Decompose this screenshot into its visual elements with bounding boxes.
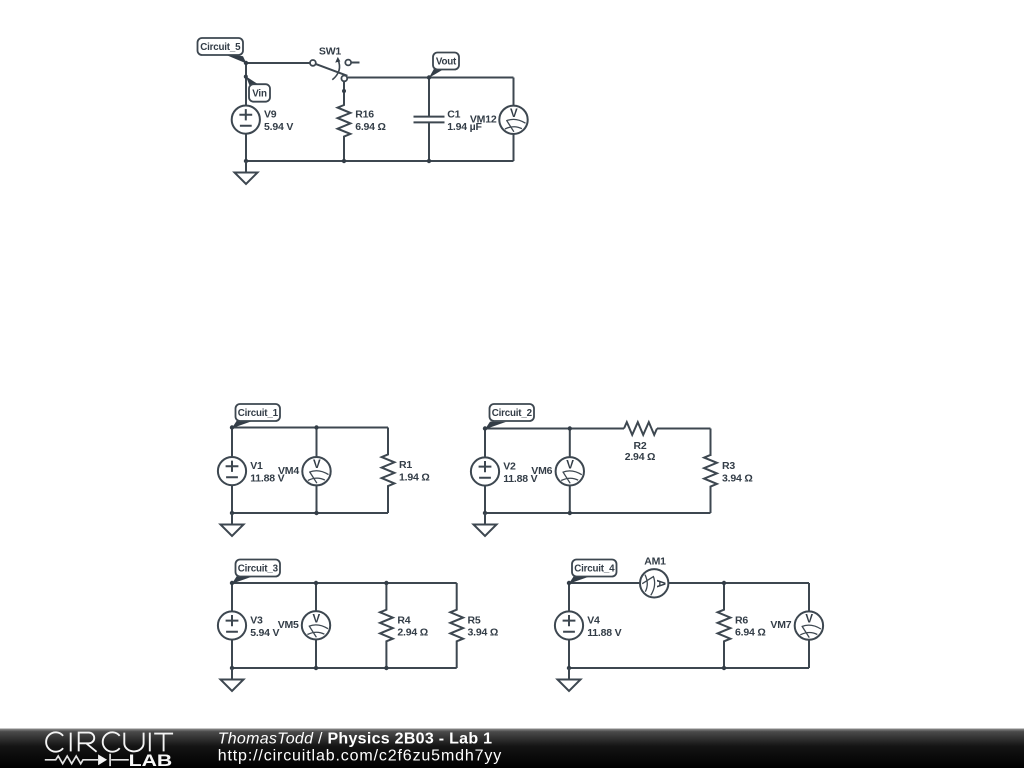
junction V9 bottom rail bbox=[244, 159, 248, 163]
junction node top-left Circuit_1 bbox=[230, 425, 234, 429]
svg-text:A: A bbox=[654, 579, 666, 587]
svg-text:VM6: VM6 bbox=[531, 465, 552, 477]
svg-text:SW1: SW1 bbox=[319, 45, 342, 57]
junction Vout node bbox=[427, 75, 431, 79]
wire: V4 bottom lead bbox=[568, 640, 570, 668]
voltage source V2 bbox=[471, 457, 499, 485]
callout flag Circuit_4 bbox=[569, 560, 617, 584]
CircuitLab logo resistor-diode wire bbox=[45, 754, 129, 766]
wire: VM7 bottom lead bbox=[808, 640, 810, 668]
resistor R4 bbox=[380, 583, 393, 668]
callout flag Vin bbox=[246, 76, 270, 101]
junction node top-left Circuit_3 bbox=[230, 581, 234, 585]
svg-text:Vin: Vin bbox=[252, 89, 267, 100]
wire: node Vin-top to SW1 left terminal bbox=[246, 62, 310, 64]
wire: bottom rail of Circuit_4 bbox=[569, 667, 809, 669]
wire: V1 top lead bbox=[231, 428, 233, 458]
voltage source V9 bbox=[232, 106, 260, 134]
junction VM6 top bbox=[568, 426, 572, 430]
callout flag Circuit_5 bbox=[198, 38, 247, 64]
wire: SW1 common down to R16 bbox=[343, 81, 345, 104]
junction Vin node bbox=[244, 75, 248, 79]
voltmeter VM7 bbox=[795, 611, 823, 639]
junction VM5 top bbox=[314, 581, 318, 585]
resistor R16 bbox=[338, 81, 351, 162]
voltage source V4 bbox=[555, 611, 583, 639]
svg-text:VM5: VM5 bbox=[278, 619, 299, 631]
voltage source V3 bbox=[218, 611, 246, 639]
svg-text:R1: R1 bbox=[399, 459, 412, 471]
svg-text:5.94 V: 5.94 V bbox=[264, 121, 293, 133]
svg-text:2.94 Ω: 2.94 Ω bbox=[625, 451, 656, 463]
wire: V4 top lead bbox=[568, 583, 570, 612]
voltage source V1 bbox=[218, 457, 246, 485]
resistor R6 bbox=[718, 583, 731, 668]
wire: top rail of Circuit_1 bbox=[232, 427, 388, 429]
svg-text:3.94 Ω: 3.94 Ω bbox=[468, 627, 499, 639]
wire: VM5 bottom lead bbox=[315, 640, 317, 668]
svg-text:2.94 Ω: 2.94 Ω bbox=[397, 627, 428, 639]
svg-text:VM7: VM7 bbox=[770, 619, 791, 631]
svg-text:http://circuitlab.com/c2f6zu5m: http://circuitlab.com/c2f6zu5mdh7yy bbox=[218, 747, 502, 764]
wire: VM6 bottom lead bbox=[569, 486, 571, 514]
svg-text:Circuit_2: Circuit_2 bbox=[492, 408, 533, 419]
resistor R2 (horizontal) bbox=[624, 422, 657, 435]
wire: V9 top lead from node to source bbox=[245, 63, 247, 106]
ground Circuit_1 bbox=[221, 513, 244, 536]
wire: bottom rail of Circuit_2 bbox=[485, 512, 711, 514]
resistor R3 bbox=[704, 429, 717, 514]
junction VM4 bottom bbox=[314, 511, 318, 515]
wire: V2 top lead bbox=[484, 429, 486, 458]
svg-text:Circuit_5: Circuit_5 bbox=[200, 42, 241, 53]
ground Circuit_3 bbox=[221, 668, 244, 691]
wire: AM1 to VM7 corner bbox=[668, 582, 809, 584]
junction SW1 to R16 bbox=[342, 89, 346, 93]
wire: bottom rail of Circuit_5 bbox=[246, 160, 514, 162]
svg-text:R5: R5 bbox=[468, 614, 481, 626]
ground Circuit_4 bbox=[558, 668, 581, 691]
wire: VM12 bottom lead bbox=[513, 134, 515, 161]
callout flag Circuit_2 bbox=[485, 404, 534, 429]
svg-text:ThomasTodd / Physics 2B03 - La: ThomasTodd / Physics 2B03 - Lab 1 bbox=[218, 731, 493, 748]
svg-text:VM12: VM12 bbox=[470, 113, 497, 125]
svg-text:V: V bbox=[313, 459, 321, 471]
capacitor C1 bbox=[414, 78, 445, 162]
junction VM4 top bbox=[314, 425, 318, 429]
junction C1 bottom rail bbox=[427, 159, 431, 163]
callout flag Circuit_3 bbox=[232, 560, 280, 584]
voltmeter VM5 bbox=[302, 611, 330, 639]
wire: V9 bottom lead bbox=[245, 134, 247, 161]
wire: V1 bottom lead bbox=[231, 485, 233, 513]
wire: VM7 top lead bbox=[808, 583, 810, 612]
svg-text:Circuit_4: Circuit_4 bbox=[574, 564, 615, 575]
wire: R3 right riser bbox=[710, 429, 712, 457]
svg-text:1.94 Ω: 1.94 Ω bbox=[399, 471, 430, 483]
wire: VM4 top lead bbox=[316, 428, 318, 458]
svg-text:V: V bbox=[312, 613, 320, 625]
footer black bar bbox=[0, 729, 1024, 768]
voltmeter VM6 bbox=[556, 457, 584, 485]
wire: top rail of Circuit_3 bbox=[232, 582, 457, 584]
junction node top-left Circuit_2 bbox=[483, 426, 487, 430]
svg-text:C1: C1 bbox=[447, 109, 460, 121]
wire: V2 bottom lead bbox=[484, 486, 486, 513]
svg-text:Circuit_3: Circuit_3 bbox=[238, 564, 279, 575]
switch SW1 bbox=[310, 57, 360, 81]
svg-text:V3: V3 bbox=[250, 615, 263, 627]
voltmeter VM12 bbox=[499, 106, 527, 134]
svg-text:R16: R16 bbox=[355, 109, 374, 121]
svg-text:11.88 V: 11.88 V bbox=[587, 627, 621, 639]
junction R4 top bbox=[384, 581, 388, 585]
svg-text:V: V bbox=[805, 614, 813, 626]
wire: bottom rail of Circuit_3 bbox=[232, 667, 457, 669]
resistor R1 bbox=[382, 428, 395, 514]
wire: top rail right of R2 bbox=[657, 428, 711, 430]
junction R6 bottom bbox=[722, 666, 726, 670]
ammeter AM1 bbox=[640, 569, 668, 597]
svg-text:R6: R6 bbox=[735, 614, 748, 626]
CircuitLab logo CIRCUIT wordmark bbox=[46, 732, 173, 752]
junction R6 top bbox=[722, 581, 726, 585]
callout flag Vout bbox=[429, 53, 459, 78]
junction V3 bottom bbox=[230, 666, 234, 670]
svg-text:Vout: Vout bbox=[436, 57, 457, 68]
ground Circuit_2 bbox=[474, 513, 497, 536]
svg-text:R3: R3 bbox=[722, 460, 735, 472]
svg-text:V1: V1 bbox=[250, 460, 263, 472]
junction VM6 bottom bbox=[568, 511, 572, 515]
junction V4 bottom bbox=[567, 666, 571, 670]
wire: node to AM1 bbox=[569, 582, 640, 584]
junction R16 bottom rail bbox=[342, 159, 346, 163]
wire: VM12 top lead bbox=[513, 78, 515, 106]
svg-text:3.94 Ω: 3.94 Ω bbox=[722, 473, 753, 485]
resistor R5 bbox=[450, 583, 463, 668]
wire: VM6 top lead bbox=[569, 429, 571, 458]
svg-text:LAB: LAB bbox=[129, 752, 173, 768]
wire: VM4 bottom lead bbox=[316, 486, 318, 514]
svg-text:V2: V2 bbox=[503, 461, 516, 473]
junction V1 bottom bbox=[230, 511, 234, 515]
svg-text:V: V bbox=[510, 108, 518, 120]
junction node A top-left of Circuit_5 bbox=[244, 61, 248, 65]
svg-text:V9: V9 bbox=[264, 109, 277, 121]
wire: V3 bottom lead bbox=[231, 640, 233, 668]
voltmeter VM4 bbox=[302, 457, 330, 485]
svg-text:VM4: VM4 bbox=[278, 465, 299, 477]
junction node top-left Circuit_4 bbox=[567, 581, 571, 585]
junction VM5 bottom bbox=[314, 666, 318, 670]
wire: V3 top lead bbox=[231, 583, 233, 612]
wire: bottom rail of Circuit_1 bbox=[232, 512, 388, 514]
svg-text:AM1: AM1 bbox=[644, 556, 666, 568]
svg-text:6.94 Ω: 6.94 Ω bbox=[735, 627, 766, 639]
svg-text:6.94 Ω: 6.94 Ω bbox=[355, 121, 386, 133]
wire: SW1 common to Vout to VM12 top corner bbox=[344, 77, 514, 79]
svg-text:Circuit_1: Circuit_1 bbox=[238, 408, 279, 419]
svg-text:5.94 V: 5.94 V bbox=[250, 627, 279, 639]
ground Circuit_5 bbox=[235, 161, 258, 184]
wire: top rail left of Circuit_2 bbox=[485, 428, 624, 430]
junction V2 bottom bbox=[483, 511, 487, 515]
svg-text:V4: V4 bbox=[587, 615, 600, 627]
wire: VM5 top lead bbox=[315, 583, 317, 611]
junction R4 bottom bbox=[384, 666, 388, 670]
svg-text:R4: R4 bbox=[397, 614, 410, 626]
callout flag Circuit_1 bbox=[232, 404, 280, 428]
svg-text:V: V bbox=[566, 459, 574, 471]
